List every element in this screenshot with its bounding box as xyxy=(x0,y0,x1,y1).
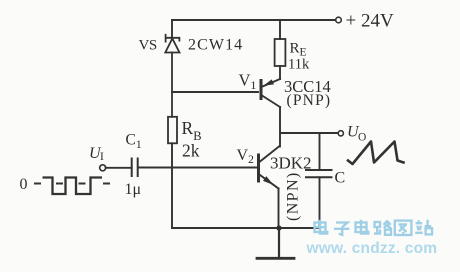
zener diode VS 2CW14 xyxy=(165,35,179,117)
svg-text:0: 0 xyxy=(20,176,28,193)
transistor V1 (PNP 3CC14) xyxy=(261,79,280,107)
wire input line C1 to V2 base xyxy=(139,167,259,169)
wire UO branch xyxy=(280,132,338,134)
svg-text:2CW14: 2CW14 xyxy=(188,37,243,54)
svg-text:+ 24V: + 24V xyxy=(346,11,394,32)
svg-text:O: O xyxy=(358,132,366,144)
resistor RE xyxy=(275,39,286,66)
lu xyxy=(374,221,391,235)
wire node A to V1 base xyxy=(172,91,258,93)
svg-text:www. cndzz. com: www. cndzz. com xyxy=(306,240,438,257)
svg-text:1μ: 1μ xyxy=(125,181,142,198)
wire RE branch from rail xyxy=(279,20,281,39)
wire top rail xyxy=(172,19,335,21)
tu xyxy=(395,221,412,235)
terminal UO xyxy=(338,131,343,136)
svg-text:(PNP): (PNP) xyxy=(287,92,332,109)
dian xyxy=(356,220,369,234)
wire RE to V1 emitter xyxy=(279,66,281,79)
svg-text:VS: VS xyxy=(139,38,157,54)
watermark hanzi 电子电路图站 xyxy=(315,220,433,235)
zi xyxy=(334,223,350,235)
wire left column upper (zener branch) xyxy=(171,20,173,38)
dian xyxy=(315,220,328,234)
svg-text:V2: V2 xyxy=(237,147,255,166)
terminal +24V xyxy=(336,17,342,23)
svg-text:RB: RB xyxy=(182,118,202,143)
wire V2 emitter down xyxy=(278,189,280,229)
wire cap C feed upper xyxy=(319,133,321,170)
zhan xyxy=(415,220,432,235)
input square waveform xyxy=(34,178,110,195)
svg-text:C: C xyxy=(335,170,346,187)
svg-text:C1: C1 xyxy=(126,132,142,151)
capacitor C xyxy=(306,170,332,177)
svg-text:3DK2: 3DK2 xyxy=(270,154,312,173)
junction emitter/ground node xyxy=(276,225,281,230)
wire V1 collector down xyxy=(279,107,281,147)
svg-text:11k: 11k xyxy=(288,57,310,73)
svg-text:I: I xyxy=(100,151,104,163)
wire bottom rail xyxy=(172,227,320,229)
transistor V2 (NPN 3DK2) xyxy=(259,147,280,189)
wire UI terminal to C1 xyxy=(106,167,132,169)
svg-text:(NPN): (NPN) xyxy=(285,171,302,221)
wire cap C to bottom rail xyxy=(319,177,321,228)
ground xyxy=(257,228,294,258)
wire RB bottom to lower corner xyxy=(171,143,173,228)
output sawtooth waveform xyxy=(348,142,404,165)
svg-text:V1: V1 xyxy=(239,71,257,92)
svg-text:2k: 2k xyxy=(182,141,200,161)
terminal UI xyxy=(100,165,106,171)
resistor RB xyxy=(168,117,177,144)
capacitor C1 xyxy=(132,159,138,177)
